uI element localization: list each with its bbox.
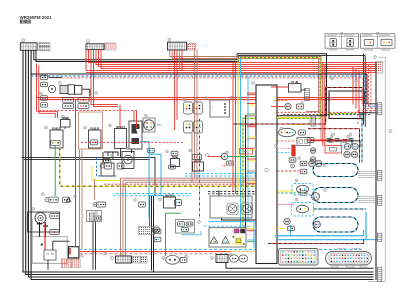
svg-text:配線図: 配線図	[20, 19, 32, 24]
